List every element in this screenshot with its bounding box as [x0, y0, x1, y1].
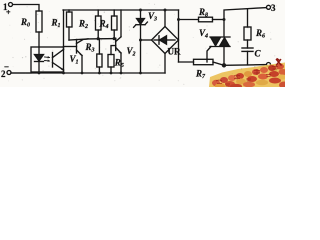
- resistor R7: [194, 59, 214, 64]
- top rail: [63, 9, 179, 11]
- wire terminal 2 to rail: [11, 72, 31, 74]
- resistor R0: [36, 11, 42, 32]
- transistor V1: [77, 39, 89, 56]
- wire R4 bottom: [113, 30, 115, 39]
- optocoupler LED: [35, 47, 44, 73]
- bridge rectifier UR: [152, 27, 179, 54]
- triac V4: [210, 37, 230, 47]
- wire phototransistor collector to top rail: [63, 10, 65, 50]
- wire phototransistor emitter to bottom rail: [63, 70, 65, 73]
- resistor R6: [244, 27, 251, 40]
- optocoupler phototransistor: [53, 50, 64, 71]
- wire bridge top vertex to rail: [164, 10, 166, 27]
- watermark band: [209, 58, 289, 89]
- bottom rail: [11, 72, 165, 74]
- terminal 3: [267, 5, 271, 9]
- resistor R5: [108, 55, 114, 68]
- wire R1 top: [68, 10, 70, 12]
- wire R4 top: [113, 10, 115, 16]
- wire R6 to capacitor: [247, 40, 249, 48]
- transistor V2: [116, 37, 121, 53]
- resistor R1: [67, 12, 73, 27]
- svg-text:UR: UR: [168, 47, 181, 57]
- wire V4 cathode: [223, 47, 225, 66]
- junction dots: [38, 9, 227, 75]
- resistor R2: [96, 16, 102, 30]
- wire R3 top: [98, 39, 100, 54]
- wire R7 left lead: [179, 61, 194, 63]
- wire V2 emitter to bottom rail: [120, 53, 122, 73]
- resistor R8: [199, 17, 213, 22]
- wire V1 emitter to bottom rail: [81, 56, 83, 74]
- svg-text:+: +: [6, 8, 11, 17]
- node bus wire: [69, 39, 116, 40]
- optocoupler box: [31, 47, 64, 72]
- zener diode V3: [134, 10, 148, 27]
- wire V2 collector: [120, 10, 122, 37]
- wire R6 top lead: [247, 9, 249, 27]
- wire R2 bottom: [97, 30, 99, 39]
- wire bridge bottom vertex to bottom rail: [164, 54, 166, 74]
- wire R5 bottom: [110, 67, 112, 73]
- wire V3 node to bridge left vertex: [141, 39, 152, 41]
- terminal 1: [9, 3, 13, 7]
- wire V4 anode column: [223, 20, 225, 38]
- wire node to terminal 4: [224, 64, 266, 67]
- wire capacitor bottom: [247, 51, 249, 65]
- wire V4 gate: [207, 47, 211, 63]
- wire R3 bottom: [98, 67, 100, 73]
- wire R8 left: [179, 19, 199, 21]
- svg-text:C: C: [255, 49, 262, 59]
- wire R0 to optocoupler LED: [38, 32, 40, 47]
- terminal 2: [7, 71, 11, 75]
- wire V3 cathode to bottom rail: [140, 25, 142, 73]
- wire corner to terminal 3: [224, 8, 266, 20]
- terminal 4: [267, 63, 271, 67]
- wire R5 top to V2 base: [111, 46, 116, 55]
- wire R1 bottom: [68, 27, 70, 40]
- wire R7 right to node: [213, 62, 224, 65]
- svg-text:3: 3: [271, 3, 276, 13]
- wire terminal1 to R0: [13, 5, 39, 12]
- capacitor C: [242, 48, 253, 51]
- watermark dark mark 4: [276, 58, 282, 65]
- wire R2 top: [97, 10, 99, 16]
- wire R8 right to corner: [213, 19, 225, 21]
- wire base of V1: [64, 46, 77, 48]
- bridge internal diode: [154, 36, 175, 44]
- optocoupler light arrows: [45, 56, 51, 62]
- resistor R4: [112, 16, 118, 30]
- resistor R3: [97, 54, 102, 67]
- wire right column rail to R7: [178, 10, 180, 62]
